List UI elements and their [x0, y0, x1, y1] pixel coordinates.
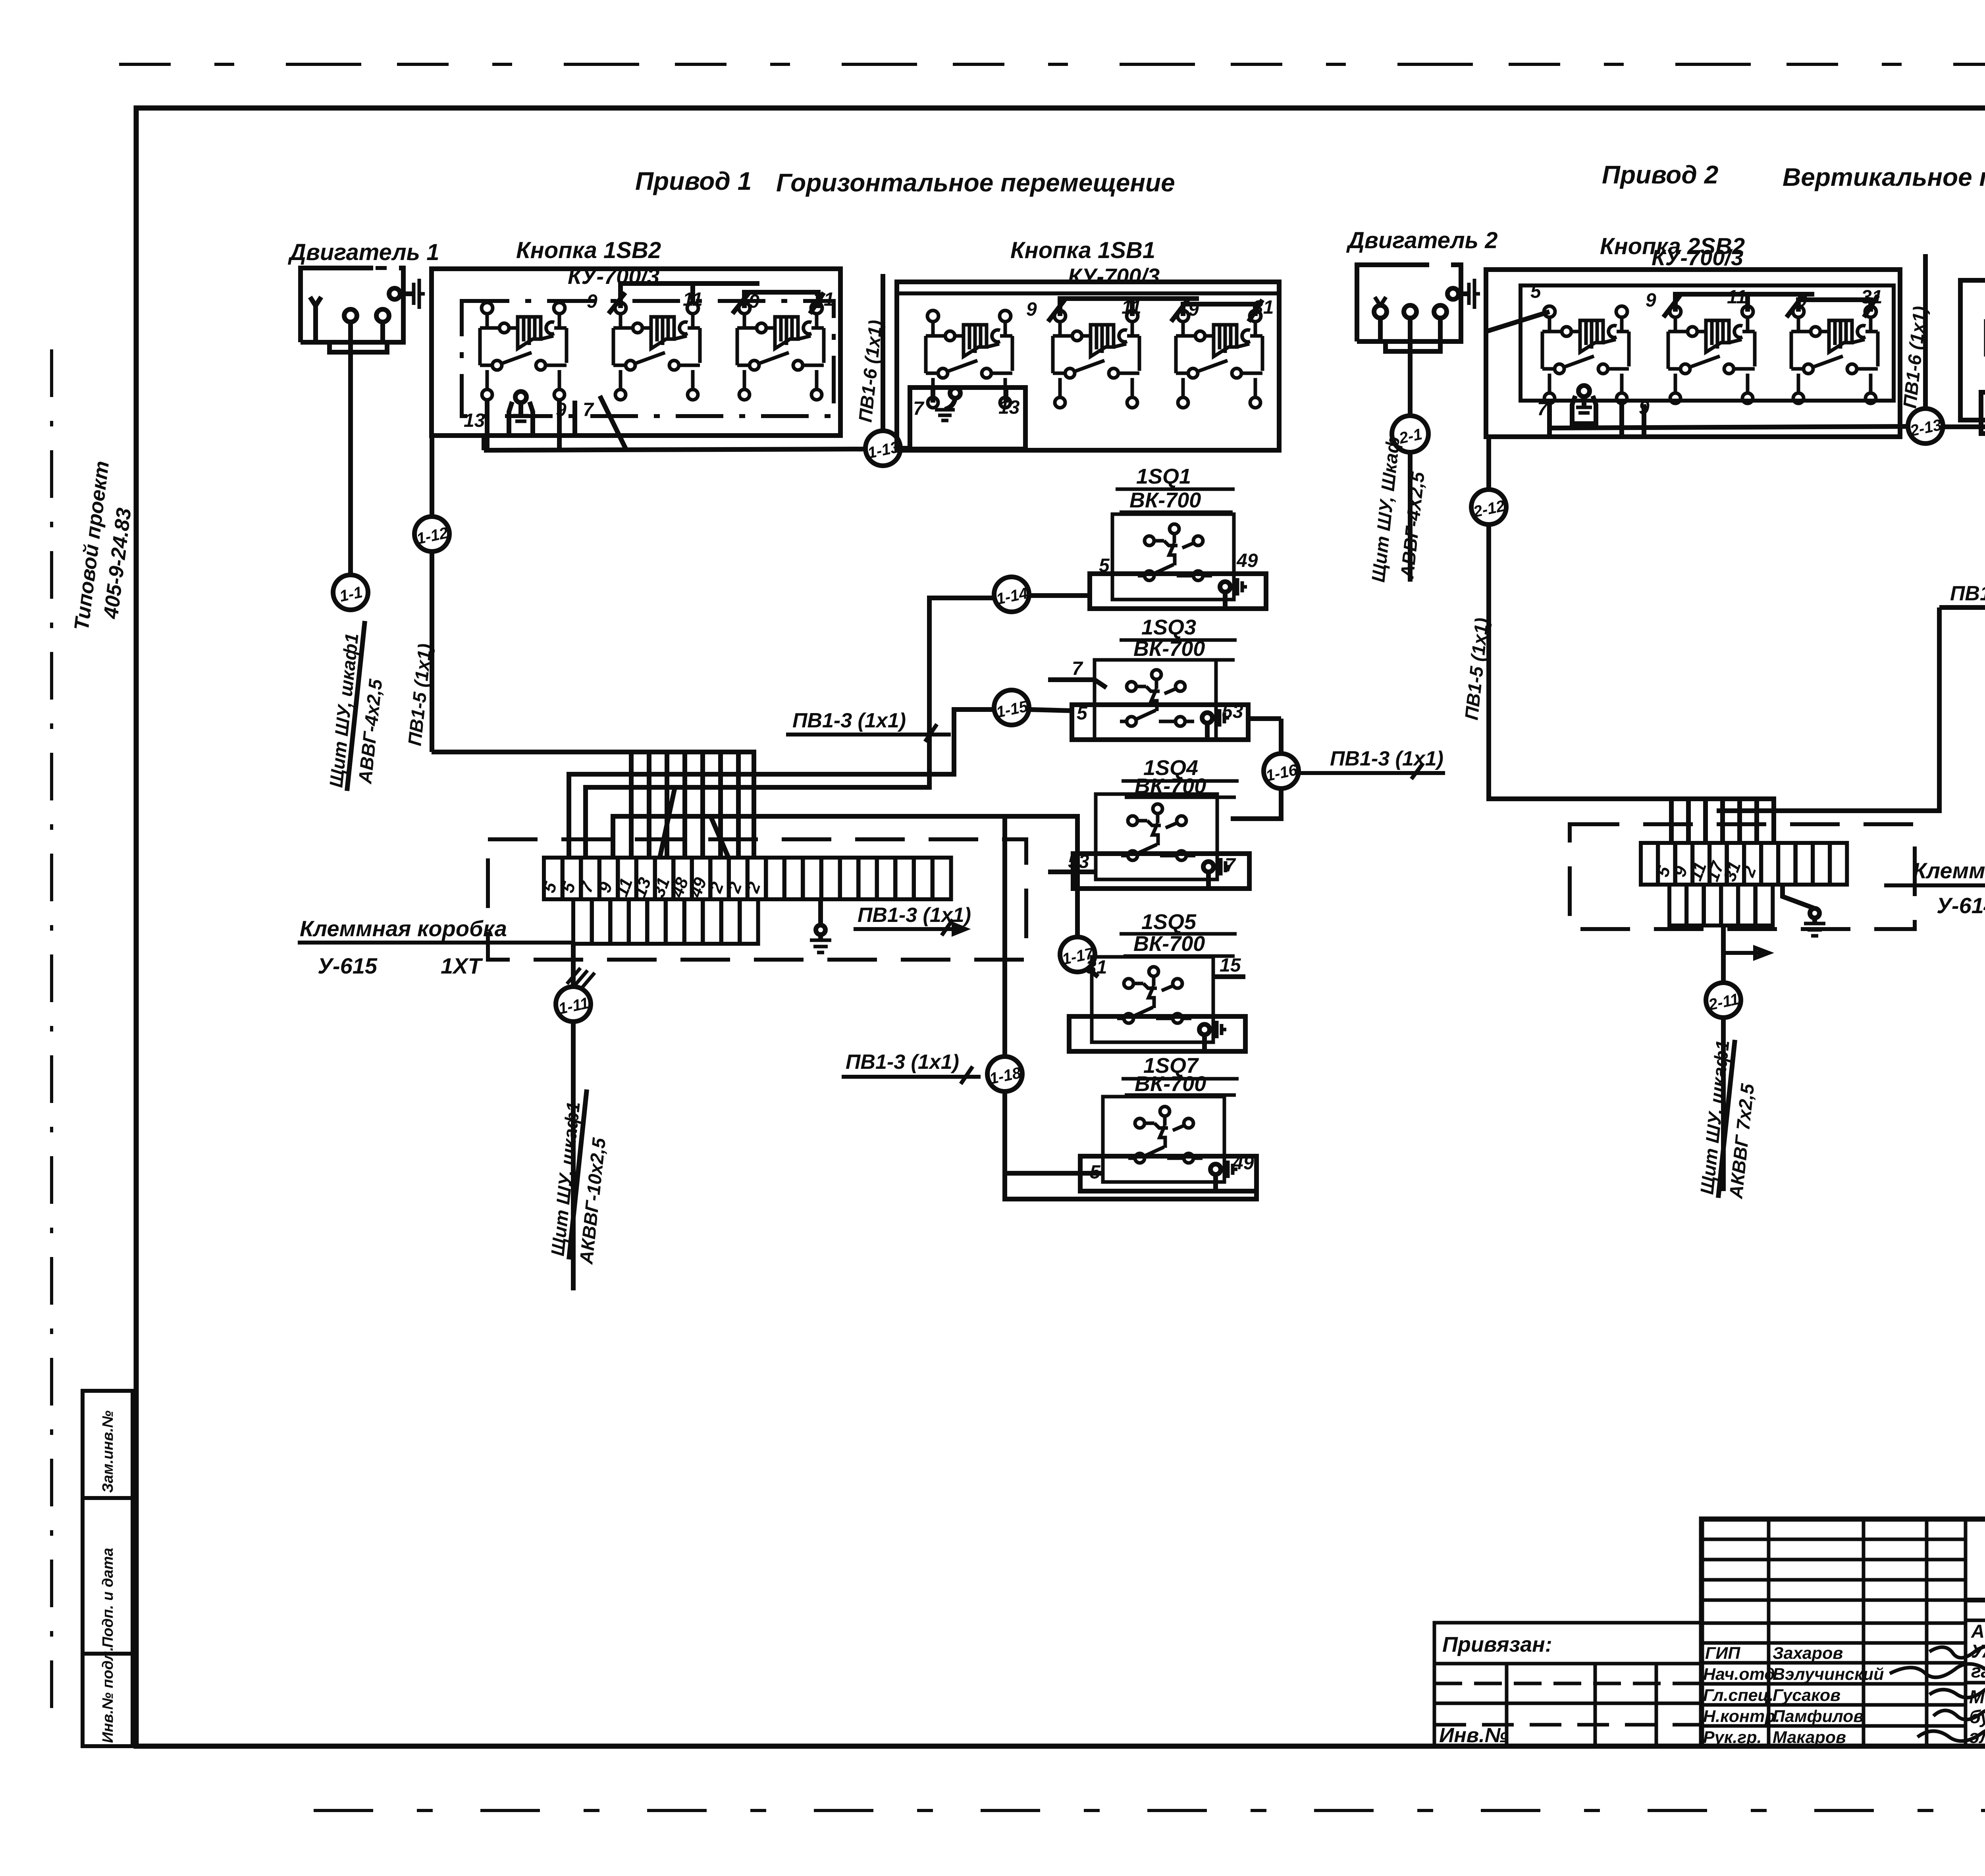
TITLE-BLOCK	[1434, 1519, 1985, 1747]
svg-text:1ХТ: 1ХТ	[441, 953, 483, 978]
wire 15-exit 1SQ5	[1213, 974, 1245, 979]
svg-text:Вертикальное перемещение.: Вертикальное перемещение.	[1783, 163, 1985, 191]
svg-text:ВК-700: ВК-700	[1129, 488, 1201, 512]
cable label Щит ШУ шкаф1 АКВВГ-10х2,5	[547, 1101, 584, 1257]
2SB2 lower stubs	[1549, 404, 1644, 437]
svg-text:9: 9	[749, 291, 759, 312]
svg-text:1SQ3: 1SQ3	[1141, 615, 1196, 639]
svg-text:Памфилов: Памфилов	[1773, 1707, 1864, 1726]
2SB2 top jumpers	[1675, 294, 1814, 312]
svg-text:9: 9	[587, 291, 597, 312]
push-button station 1SB2 box	[432, 269, 840, 436]
node 1-1	[333, 575, 368, 610]
svg-text:ПВ1-3 (1х1): ПВ1-3 (1х1)	[846, 1051, 959, 1074]
node 2-12	[1471, 490, 1507, 524]
svg-text:7: 7	[913, 398, 925, 419]
svg-text:15: 15	[1220, 955, 1241, 976]
wire ПВ1-6 vertical to 1-13	[881, 274, 885, 431]
svg-text:Двигатель 2: Двигатель 2	[1346, 228, 1497, 253]
wire 1-16 down to 1SQ4	[1231, 789, 1281, 819]
svg-text:ГИП: ГИП	[1705, 1644, 1740, 1663]
1SB1 top jumpers	[1060, 299, 1199, 316]
arrow right at 2ХГ drop	[1723, 948, 1769, 958]
svg-text:Горизонтальное перемещение: Горизонтальное перемещение	[776, 168, 1175, 197]
1SB2 diagonal to bus	[600, 396, 626, 450]
terminal numbers 2ХГ	[1653, 858, 1760, 884]
svg-text:7: 7	[1072, 658, 1083, 679]
svg-text:ВК-700: ВК-700	[1135, 1072, 1206, 1096]
big designation cell	[1966, 1598, 1985, 1602]
motor M2 PE terminal	[1447, 288, 1459, 299]
wire ПВ1-6 vertical to 2-13	[1923, 254, 1928, 409]
wire 7-entry 1SQ3	[1048, 680, 1106, 688]
svg-text:9: 9	[1646, 290, 1656, 311]
limit switch 1SQ4	[1068, 794, 1249, 889]
terminal box 1 У-615 dashed outline	[488, 839, 1026, 960]
wire 1-18 vertical	[1002, 816, 1007, 1057]
svg-text:Двигатель 1: Двигатель 1	[287, 239, 439, 265]
svg-text:49: 49	[1232, 1153, 1254, 1174]
wire 1-17 to 1SQ5	[1088, 969, 1098, 977]
wire 2-14 branch	[1939, 605, 1985, 610]
1SB1 flag ground	[935, 388, 960, 420]
wire: motor M1 down to node 1-1	[348, 348, 353, 575]
wire below node 2-11	[1721, 1018, 1726, 1191]
svg-text:Кнопка 1SB1: Кнопка 1SB1	[1010, 237, 1155, 263]
1SB2 bottle ground	[509, 391, 533, 436]
wire: station 1SB2 left down through 1-12 to bus	[430, 436, 434, 517]
svg-text:КУ-700/3: КУ-700/3	[1652, 245, 1743, 270]
wire bus1 to 1-14	[432, 752, 754, 858]
svg-text:7: 7	[1537, 399, 1549, 420]
svg-text:49: 49	[1236, 550, 1258, 571]
wire drops to 2ХГ	[1669, 799, 1674, 843]
svg-text:Ацетиленовая станция: Ацетиленовая станция	[1971, 1621, 1985, 1642]
svg-text:Привязан:: Привязан:	[1442, 1633, 1552, 1656]
svg-text:У-614: У-614	[1937, 893, 1985, 918]
svg-text:Подп. и дата: Подп. и дата	[100, 1548, 116, 1648]
cable label Щит ШУ Шкаф АВВГ-4х2,5 right	[1367, 436, 1403, 583]
1SB2 unit 2	[613, 303, 700, 400]
push-button station 2SB1 box	[1960, 280, 1985, 420]
1SB1 unit 1	[926, 310, 1012, 408]
svg-text:7: 7	[583, 399, 594, 420]
2SB2 unit 3	[1791, 306, 1878, 403]
node 1-13	[865, 431, 901, 466]
sheet outer edge top dashed	[119, 63, 1985, 66]
node 2-1	[1392, 416, 1428, 452]
svg-text:9: 9	[1796, 290, 1807, 311]
svg-text:13: 13	[464, 410, 485, 431]
svg-text:1SQ1: 1SQ1	[1136, 465, 1191, 488]
signature rows text	[1703, 1644, 1884, 1747]
2SB2 pin labels	[1530, 281, 1882, 420]
sheet outer edge left dash-dot	[50, 349, 53, 1723]
wire 1-18 to 1SQ7	[1005, 1091, 1257, 1199]
wire bus 2SB2 to node 2-13	[1549, 426, 1908, 428]
svg-text:Рук.гр.: Рук.гр.	[1703, 1728, 1762, 1747]
svg-text:31: 31	[813, 289, 834, 310]
terminal strip 1XT row 2	[573, 899, 758, 944]
svg-text:11: 11	[1122, 297, 1141, 318]
node 1-17	[1060, 937, 1096, 972]
1SB2 unit 1	[480, 303, 567, 400]
wire 1-15 to 1SQ3	[1029, 710, 1072, 711]
2SB2 unit 1	[1542, 306, 1629, 403]
svg-text:Вэлучинский: Вэлучинский	[1773, 1665, 1884, 1684]
push-button station 1SB1 box	[897, 282, 1279, 450]
1SB2 lower stubs and bus to 1-13	[484, 401, 487, 450]
svg-text:53: 53	[1222, 701, 1243, 722]
terminal box 2 У-614 dashed outline	[1570, 824, 1915, 929]
sheet outer edge bottom dashed	[314, 1809, 1985, 1812]
wire drops to 1XT	[629, 752, 634, 858]
cable label Щит ШУ шкаф1 АКВВГ 7х2,5	[1696, 1039, 1733, 1195]
wire below node 2-1	[1408, 452, 1413, 582]
svg-text:Н.контр.: Н.контр.	[1703, 1707, 1780, 1726]
svg-text:5: 5	[1099, 555, 1110, 576]
svg-text:Захаров: Захаров	[1773, 1644, 1843, 1663]
node 1-18	[987, 1057, 1023, 1091]
1SB1 unit 3	[1176, 310, 1262, 408]
node 1-14	[994, 577, 1029, 612]
svg-text:11: 11	[683, 289, 703, 310]
svg-text:Привод 2: Привод 2	[1602, 160, 1718, 189]
svg-text:31: 31	[1861, 287, 1882, 308]
svg-text:Гусаков: Гусаков	[1773, 1686, 1840, 1705]
project description text	[1969, 1621, 1985, 1747]
HEADERS	[287, 160, 1985, 289]
1SB1 pin labels	[913, 297, 1274, 419]
svg-text:ПВ1-3 (1х1): ПВ1-3 (1х1)	[1950, 582, 1985, 605]
limit switch 1SQ1	[1090, 514, 1266, 609]
ground in 2ХГ	[1783, 885, 1815, 908]
title block columns	[1767, 1519, 1771, 1746]
svg-text:КУ-700/3: КУ-700/3	[1068, 264, 1160, 289]
svg-text:11: 11	[1727, 287, 1747, 308]
title block left extension (Привязан)	[1434, 1623, 1702, 1746]
limit switch 1SQ3	[1072, 658, 1248, 740]
2SB2 unit 2	[1668, 306, 1755, 403]
terminal strip 2ХГ row 2	[1669, 885, 1773, 925]
wire: motor M2 down to node 2-1	[1408, 347, 1413, 416]
label 1SQ5 / ВК-700	[1133, 910, 1205, 956]
node 1-12	[414, 517, 450, 551]
wire 1-14 to 1SQ1	[1029, 593, 1090, 598]
underline of cable label at 1-1	[347, 621, 365, 791]
wire bus2 to 1-15	[569, 710, 994, 858]
1SB1 unit 2	[1053, 310, 1139, 408]
ground in 1XT	[818, 899, 823, 925]
svg-text:1SQ5: 1SQ5	[1141, 910, 1197, 934]
1SB1 lower extension box	[910, 388, 1025, 449]
2SB2 5-diagonal entry	[1486, 312, 1549, 332]
wire 53-entry 1SQ4	[1048, 870, 1096, 874]
title block rows left	[1702, 1538, 1966, 1541]
svg-text:Клеммная коробка: Клеммная коробка	[1913, 858, 1985, 883]
wire 2ХГ down to node 2-11	[1721, 925, 1726, 982]
wire bus3 to 1-17	[613, 816, 1077, 937]
wire 2-13 to 2SB1	[1943, 424, 1985, 429]
svg-text:ПВ1-3 (1х1): ПВ1-3 (1х1)	[1330, 747, 1443, 770]
svg-text:5: 5	[1530, 281, 1542, 302]
left margin rotated text: Типовой проект 405-9-24.83	[70, 460, 136, 632]
svg-text:9: 9	[1188, 299, 1199, 320]
1SB2 top jumper wires	[621, 283, 759, 308]
node 1-15	[994, 690, 1030, 725]
title block outer	[1702, 1519, 1985, 1746]
svg-text:31: 31	[1253, 297, 1274, 318]
svg-text:Инв.№: Инв.№	[1439, 1724, 1508, 1747]
svg-text:Инв.№ подл.: Инв.№ подл.	[100, 1647, 116, 1743]
wire below node 1-11	[571, 1022, 576, 1290]
label 1SQ4 / ВК-700	[1135, 756, 1206, 798]
motor M2 Двигатель 2	[1357, 265, 1480, 351]
svg-text:Зам.инв.№: Зам.инв.№	[100, 1411, 116, 1493]
wire bus from 1SB2 to node 1-13	[484, 449, 865, 450]
svg-text:13: 13	[998, 397, 1020, 418]
1SB2 unit 3	[737, 303, 824, 400]
wire 1-13 to 1SB1	[900, 446, 910, 451]
label 1SQ1 / ВК-700	[1129, 465, 1201, 512]
wire 1SQ3 53 to node 1-16	[1248, 719, 1281, 754]
label Клеммная коробка У-615 1ХТ	[300, 916, 507, 978]
svg-text:Клеммная коробка: Клеммная коробка	[300, 916, 507, 941]
limit switch 1SQ7	[1080, 1097, 1257, 1191]
node 1-11	[556, 987, 591, 1022]
svg-text:Нач.отд.: Нач.отд.	[1703, 1665, 1780, 1684]
label 1SQ3 / ВК-700	[1133, 615, 1205, 661]
svg-text:У-615: У-615	[318, 953, 378, 978]
label 1SQ7 / ВК-700	[1135, 1054, 1206, 1096]
limit switch 1SQ5	[1069, 955, 1245, 1051]
cable label Щит ШУ шкаф1 АВВГ-4х2,5	[325, 632, 386, 789]
svg-text:Гл.спец.: Гл.спец.	[1703, 1686, 1773, 1705]
1SB2 pin labels	[464, 289, 834, 431]
motor M1 PE terminal	[389, 288, 400, 299]
motor M1 Двигатель 1	[301, 268, 425, 352]
node 1-16	[1264, 754, 1299, 789]
label Клеммная коробка У-614 2ХГ	[1913, 858, 1985, 918]
svg-text:9: 9	[1026, 299, 1037, 320]
wire big loop ПВ1-5 right	[1489, 437, 1939, 811]
left stamp column table	[83, 1391, 133, 1746]
node 2-13	[1908, 409, 1943, 443]
wire bus3 to 1-14	[586, 598, 994, 858]
terminal strip 2ХГ row 1	[1641, 843, 1847, 885]
svg-text:Привод 1: Привод 1	[635, 167, 752, 195]
signature squiggles	[1890, 1645, 1985, 1741]
push-button station 2SB2 box	[1486, 270, 1900, 437]
svg-text:7: 7	[1225, 855, 1236, 876]
node 2-11	[1706, 983, 1741, 1018]
terminal numbers 1XT	[539, 875, 765, 900]
2SB2 bottle ground	[1572, 386, 1596, 424]
svg-text:ПВ1-3 (1х1): ПВ1-3 (1х1)	[792, 709, 906, 732]
2SB1 lower extension box	[1981, 392, 1985, 434]
svg-text:Кнопка 1SB2: Кнопка 1SB2	[516, 237, 661, 263]
svg-text:5: 5	[1077, 703, 1088, 724]
svg-text:Макаров: Макаров	[1773, 1728, 1846, 1747]
wire 1XT down to node 1-11	[571, 944, 576, 987]
terminal strip 1XT row 1	[544, 858, 951, 899]
